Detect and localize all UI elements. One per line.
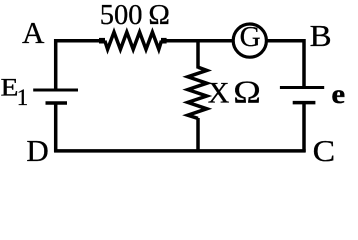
svg-text:A: A [22,15,45,50]
svg-text:D: D [26,133,48,168]
svg-text:C: C [313,133,336,168]
svg-text:X: X [208,77,230,110]
resistor R1 500 ohm (horizontal zigzag) [99,32,167,49]
node A [22,15,45,50]
wire: galvanometer to B corner, plus right vertical upper [266,41,304,88]
wire: resistor to galvanometer (through top node) [166,39,233,43]
value label 500 ohm [100,0,170,31]
galvanometer U1 (G) [233,21,266,57]
svg-text:B: B [310,18,332,53]
resistor R2 X ohm (vertical zigzag) [188,67,207,118]
wire: top-left segment A corner to resistor, plus left vertical upper [56,41,100,90]
node C [313,133,336,168]
wire: right vertical lower (e to C corner) [302,103,306,153]
wire: left vertical lower (E1 to D corner) [54,103,58,152]
svg-text:E: E [1,75,19,102]
label E1 [1,75,29,110]
svg-text:1: 1 [17,85,29,110]
label e [331,79,345,109]
wire: middle stub from resistor X to bottom node [196,118,200,151]
svg-text:Ω: Ω [233,74,261,110]
svg-text:G: G [240,21,261,53]
svg-text:e: e [331,79,345,109]
wire: middle stub from top node down to resistor X [196,42,200,68]
svg-text:500: 500 [100,0,143,31]
wire: bottom D to C [54,149,306,153]
battery E1 (left cell plates) [33,90,78,103]
node B [310,18,332,53]
battery e (right cell plates) [280,88,324,103]
value label X ohm [208,74,261,110]
svg-text:Ω: Ω [148,0,170,31]
node D [26,133,48,168]
